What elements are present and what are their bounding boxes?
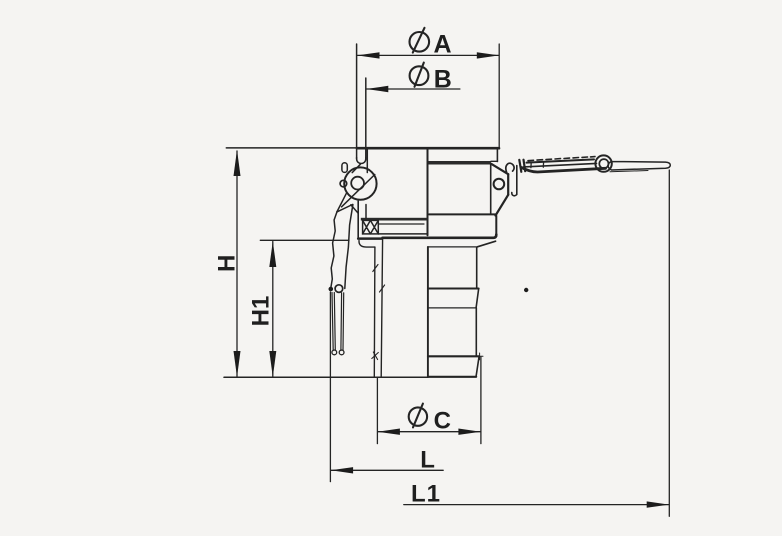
shank top line <box>428 246 477 248</box>
dimension ØB arrow <box>366 86 388 92</box>
barb 1 bottom line <box>428 307 476 309</box>
left lever inner edge <box>345 205 353 289</box>
left cam lever cap <box>357 158 366 164</box>
skirt inner line <box>373 247 376 377</box>
left cam disc <box>344 167 376 199</box>
svg-text:A: A <box>433 30 451 58</box>
collar top line right <box>429 213 495 215</box>
skirt break tick middle <box>380 285 385 292</box>
dimension H/H1 bottom extension line <box>224 376 428 378</box>
right pull ring capsule <box>608 162 670 171</box>
bell bottom thick edge <box>358 237 382 240</box>
body cam-groove right wall <box>490 165 492 214</box>
body ledge line at rim <box>491 160 497 162</box>
right cam bracket top slant <box>491 164 508 174</box>
dimension H line <box>236 151 238 377</box>
left bell wall below cam <box>357 201 359 239</box>
left cam upper diagonal <box>352 164 360 172</box>
right handle strip top edge <box>527 159 595 162</box>
shoulder slant right <box>477 241 495 247</box>
right handle bottom edge <box>522 168 606 173</box>
barb 2 slant <box>476 357 479 376</box>
dimension ØA extension line left <box>356 44 358 159</box>
left cam disc diagonal <box>342 175 375 207</box>
dimension L1 extension line <box>668 170 670 516</box>
collar bottom edge <box>383 235 497 238</box>
right handle strip lower edge <box>524 163 597 167</box>
shank right wall middle <box>475 308 477 356</box>
left safety clip capsule <box>342 163 347 173</box>
right handle knuckle strokes <box>519 160 525 172</box>
skirt break tick upper <box>373 265 378 272</box>
dimension H top extension line <box>226 147 356 149</box>
barb 1 slant <box>476 289 479 308</box>
pull ring cap right <box>339 350 344 355</box>
skirt break tick lower <box>372 352 379 360</box>
dimension ØB extension line <box>365 78 367 159</box>
dimension L1 arrow <box>647 501 669 507</box>
shank left wall <box>427 247 429 377</box>
pull ring leg right inner <box>340 293 343 351</box>
body centre division line <box>427 150 429 236</box>
pull ring leg left inner <box>334 293 335 351</box>
svg-text:H1: H1 <box>248 296 275 327</box>
svg-text:H: H <box>214 255 241 272</box>
svg-text:C: C <box>434 407 451 434</box>
left cam pin circle <box>340 180 347 187</box>
collar inner line <box>379 223 424 225</box>
reference dot <box>524 288 528 292</box>
right safety clip wire <box>512 166 517 196</box>
dimension H1 arrow top <box>269 241 276 267</box>
dimension ØB line <box>366 88 460 90</box>
label ØB diameter symbol <box>410 63 429 87</box>
dimension ØA line <box>358 54 499 56</box>
dimension H1 arrow bottom <box>269 351 276 377</box>
dimension L arrow <box>331 467 353 473</box>
right cam pivot circle <box>494 179 505 190</box>
dimension ØC extension line right <box>480 357 482 444</box>
body cam-groove top band <box>428 161 491 165</box>
pull ring cap left <box>332 350 337 355</box>
left cam lobe edge upper <box>337 194 346 212</box>
right handle strip divider <box>531 162 544 168</box>
svg-text:L1: L1 <box>411 481 441 508</box>
right handle eye inner <box>599 159 608 168</box>
dimension H arrow top <box>234 150 241 176</box>
dimension H1 top extension line <box>260 239 349 241</box>
left body wall upper stub <box>366 149 368 173</box>
left bell inner wall <box>365 205 367 220</box>
dimension L line <box>331 469 443 471</box>
left lever pivot dot <box>329 287 334 292</box>
dimension ØC line <box>378 431 481 433</box>
gasket seal crosshatched <box>363 220 379 234</box>
left lever wavy edge <box>331 212 337 288</box>
right safety clip hook <box>506 163 514 172</box>
right handle eye outer <box>595 155 611 171</box>
skirt outer line <box>381 238 382 377</box>
wall notch diagonal <box>351 205 358 213</box>
shank right wall upper <box>476 247 478 288</box>
left cam lobe edge lower <box>337 205 353 212</box>
shank bottom edge <box>428 376 476 378</box>
dimension ØA arrow left <box>357 52 379 58</box>
dimension ØC extension line left <box>376 378 378 444</box>
tick cross at barb 2 corner <box>476 353 483 360</box>
barb 2 top edge <box>428 355 479 357</box>
right cam bracket right edge <box>507 174 509 195</box>
label ØC diameter symbol <box>409 404 427 428</box>
dimension ØC arrow left <box>378 429 400 435</box>
collar top thick band (section) <box>361 218 428 221</box>
pull ring leg right outer <box>342 293 345 351</box>
pull ring leg left outer <box>332 293 333 351</box>
dimension ØC arrow right <box>458 429 480 435</box>
gasket seat line <box>378 233 427 235</box>
collar right wall <box>495 216 497 237</box>
dimension H1 line <box>272 242 274 377</box>
svg-text:L: L <box>420 446 435 473</box>
svg-text:B: B <box>434 65 452 93</box>
body right outer wall <box>496 150 498 162</box>
right ring lower shadow line <box>610 171 648 172</box>
dimension L extension line <box>329 292 331 482</box>
left cam disc hole <box>351 177 364 190</box>
dimension L1 line <box>404 504 669 506</box>
dimension ØA extension line right <box>498 44 500 149</box>
barb 1 top edge <box>428 287 479 289</box>
dimension H arrow bottom <box>234 351 241 377</box>
dimension ØA arrow right <box>477 52 499 58</box>
bell outer corner curve <box>359 241 375 248</box>
right cam bracket bottom slant <box>496 195 509 216</box>
label ØA diameter symbol <box>410 28 430 53</box>
body top edge <box>357 147 499 150</box>
right handle serrations <box>528 157 595 161</box>
left lever pivot circle <box>335 285 343 293</box>
